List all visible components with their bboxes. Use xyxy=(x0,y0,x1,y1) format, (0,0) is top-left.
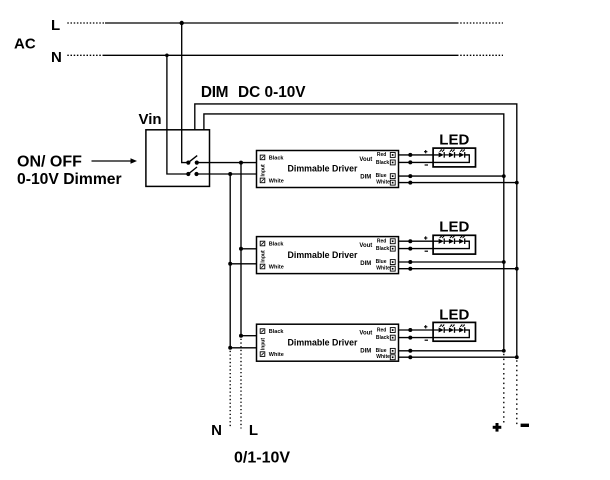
svg-text:L: L xyxy=(51,17,60,34)
junction dot DIM+ bus row 2 xyxy=(515,267,519,271)
LED diode D12 xyxy=(449,152,454,157)
svg-text:Vin: Vin xyxy=(139,111,162,128)
dimmer box U1 xyxy=(146,130,210,187)
wire L dotted tail xyxy=(457,22,503,24)
junction dot neutral feeder row 2 xyxy=(228,262,232,266)
wire N main xyxy=(104,54,457,56)
driver3 output pin Red xyxy=(390,328,395,333)
wire driver1 Black return from LED xyxy=(399,155,470,163)
svg-text:Black: Black xyxy=(376,335,390,341)
LED diode D33 xyxy=(459,328,464,333)
svg-text:Input: Input xyxy=(260,338,266,351)
wire live stub to driver3 Black xyxy=(241,335,257,337)
junction dot on N xyxy=(165,54,169,58)
svg-text:N: N xyxy=(211,422,222,439)
switch S1 blade xyxy=(188,156,197,163)
wire N drop to dimmer switch xyxy=(167,55,188,174)
LED diode D23 xyxy=(459,239,464,244)
wire driver2 Black return from LED xyxy=(399,241,470,248)
junction dot on L xyxy=(180,21,184,25)
LED diode D13 xyxy=(459,152,464,157)
driver3 output pin White xyxy=(390,355,395,360)
wire L main xyxy=(105,22,457,24)
wire neutral feeder vertical xyxy=(229,174,231,348)
wire DIM- bus dotted tail xyxy=(503,354,505,425)
junction dot DIM+ bus row 1 xyxy=(515,181,519,185)
svg-text:Blue: Blue xyxy=(376,173,387,179)
driver1 output pin Black xyxy=(390,160,395,165)
junction dot neutral feeder row 1 xyxy=(228,172,232,176)
switch S2 blade xyxy=(188,167,197,174)
driver1 output pin White xyxy=(390,180,395,185)
LED diode D32 xyxy=(449,328,454,333)
driver3 output pin Black xyxy=(390,335,395,340)
svg-text:Dimmable Driver: Dimmable Driver xyxy=(288,164,358,174)
svg-text:Red: Red xyxy=(377,152,386,158)
driver2 output pin Blue xyxy=(390,260,395,265)
wire driver3 Red to LED xyxy=(399,329,439,331)
svg-text:DIM: DIM xyxy=(360,175,371,181)
svg-text:White: White xyxy=(376,180,390,186)
LED module 1 plus label xyxy=(424,151,427,153)
svg-text:Vout: Vout xyxy=(359,157,372,163)
driver1 input pin White xyxy=(260,178,265,183)
svg-text:LED: LED xyxy=(439,132,469,149)
switch S1 upper contact dots xyxy=(186,161,190,165)
wire DIM- bus (inner) xyxy=(204,114,504,351)
svg-text:Black: Black xyxy=(376,160,390,166)
wire neutral feeder dotted tail xyxy=(229,351,231,429)
junction dot live feeder row 1 xyxy=(239,161,243,165)
driver2 output pin White xyxy=(390,266,395,271)
wire live feeder dotted tail xyxy=(240,339,242,429)
driver2 output pin Black xyxy=(390,246,395,251)
junction dot live feeder row 3 xyxy=(239,334,243,338)
LED module 2 box xyxy=(433,235,475,254)
LED module 1 box xyxy=(433,148,475,167)
svg-text:Input: Input xyxy=(260,250,266,263)
svg-text:ON/ OFF: ON/ OFF xyxy=(17,154,82,171)
wire neutral stub to driver2 White xyxy=(230,263,256,265)
svg-text:Blue: Blue xyxy=(376,259,387,265)
svg-text:Black: Black xyxy=(269,155,285,161)
junction dot DIM- bus row 3 xyxy=(502,349,506,353)
driver1 output pin Blue xyxy=(390,174,395,179)
svg-text:LED: LED xyxy=(439,306,469,323)
node minus label xyxy=(521,424,529,427)
LED module 3 minus label xyxy=(425,339,428,341)
LED module 3 box xyxy=(433,322,475,341)
switch S2 lower contact dots xyxy=(186,172,190,176)
driver2 input pin Black xyxy=(260,241,265,246)
LED diode D11 xyxy=(439,152,444,157)
svg-text:Dimmable Driver: Dimmable Driver xyxy=(288,250,358,260)
wire driver2 Red to LED xyxy=(399,240,439,242)
svg-text:DIM: DIM xyxy=(360,348,371,354)
LED module 2 plus label xyxy=(424,237,427,239)
svg-text:Red: Red xyxy=(377,239,386,245)
wire L dotted lead-in xyxy=(67,22,105,24)
junction dot DIM+ bus row 3 xyxy=(515,355,519,359)
wire switch S2 to driver1 White xyxy=(197,173,257,175)
junction dot live feeder row 2 xyxy=(239,247,243,251)
svg-text:0/1-10V: 0/1-10V xyxy=(234,450,290,467)
driver3 output pin Blue xyxy=(390,348,395,353)
wire driver1 Blue to DIM- bus xyxy=(399,175,504,177)
node plus label xyxy=(493,426,502,429)
wire driver3 Blue to DIM- bus xyxy=(399,350,504,352)
svg-text:Black: Black xyxy=(376,246,390,252)
driver3 input pin White xyxy=(260,352,265,357)
dimmable driver U3 box xyxy=(257,324,399,361)
svg-text:White: White xyxy=(269,352,284,358)
wire neutral stub to driver3 White xyxy=(230,347,256,349)
driver3 input pin Black xyxy=(260,329,265,334)
svg-text:Vout: Vout xyxy=(359,243,372,249)
junction dot neutral feeder row 3 xyxy=(228,346,232,350)
svg-text:Red: Red xyxy=(377,327,386,333)
dimmable driver U2 box xyxy=(257,237,399,274)
svg-text:Black: Black xyxy=(269,329,285,335)
wire DIM+ bus (outer) xyxy=(195,104,517,357)
svg-text:0-10V Dimmer: 0-10V Dimmer xyxy=(17,171,122,188)
wire driver2 Blue to DIM- bus xyxy=(399,261,504,263)
LED diode D31 xyxy=(439,328,444,333)
svg-text:AC: AC xyxy=(14,36,36,53)
junction dot DIM- bus row 2 xyxy=(502,260,506,264)
dimmable driver U1 box xyxy=(257,151,399,188)
LED diode D22 xyxy=(449,239,454,244)
wire driver3 Black return from LED xyxy=(399,330,470,338)
wire N dotted tail xyxy=(457,54,503,56)
wire driver1 Red to LED xyxy=(399,154,439,156)
driver1 output pin Red xyxy=(390,153,395,158)
svg-text:Dimmable Driver: Dimmable Driver xyxy=(288,337,358,347)
wire live feeder vertical xyxy=(240,163,242,336)
svg-text:White: White xyxy=(376,354,390,360)
arrow to dimmer xyxy=(92,160,132,162)
svg-text:DIM: DIM xyxy=(201,84,228,101)
svg-text:Blue: Blue xyxy=(376,348,387,354)
svg-text:White: White xyxy=(376,266,390,272)
LED diode D21 xyxy=(439,239,444,244)
svg-text:White: White xyxy=(269,264,284,270)
wire driver1 White to DIM+ bus xyxy=(399,182,517,184)
svg-text:L: L xyxy=(249,422,258,439)
wire driver2 White to DIM+ bus xyxy=(399,268,517,270)
LED module 3 plus label xyxy=(424,326,427,328)
svg-text:N: N xyxy=(51,49,62,66)
svg-text:Vout: Vout xyxy=(359,331,372,337)
wire switch S1 to driver1 Black xyxy=(197,162,257,164)
wire driver3 White to DIM+ bus xyxy=(399,356,517,358)
svg-text:White: White xyxy=(269,178,284,184)
wire live stub to driver2 Black xyxy=(241,248,257,250)
junction dot DIM- bus row 1 xyxy=(502,174,506,178)
driver2 input pin White xyxy=(260,264,265,269)
LED module 2 minus label xyxy=(425,250,428,252)
svg-text:DC 0-10V: DC 0-10V xyxy=(238,84,306,101)
svg-text:DIM: DIM xyxy=(360,261,371,267)
svg-text:LED: LED xyxy=(439,218,469,235)
wire N dotted lead-in xyxy=(67,54,104,56)
driver1 input pin Black xyxy=(260,155,265,160)
svg-text:Black: Black xyxy=(269,241,285,247)
wire DIM+ bus dotted tail xyxy=(516,360,518,425)
LED module 1 minus label xyxy=(425,164,428,166)
wire L drop to dimmer switch xyxy=(182,23,189,163)
driver2 output pin Red xyxy=(390,239,395,244)
svg-text:Input: Input xyxy=(260,164,266,177)
